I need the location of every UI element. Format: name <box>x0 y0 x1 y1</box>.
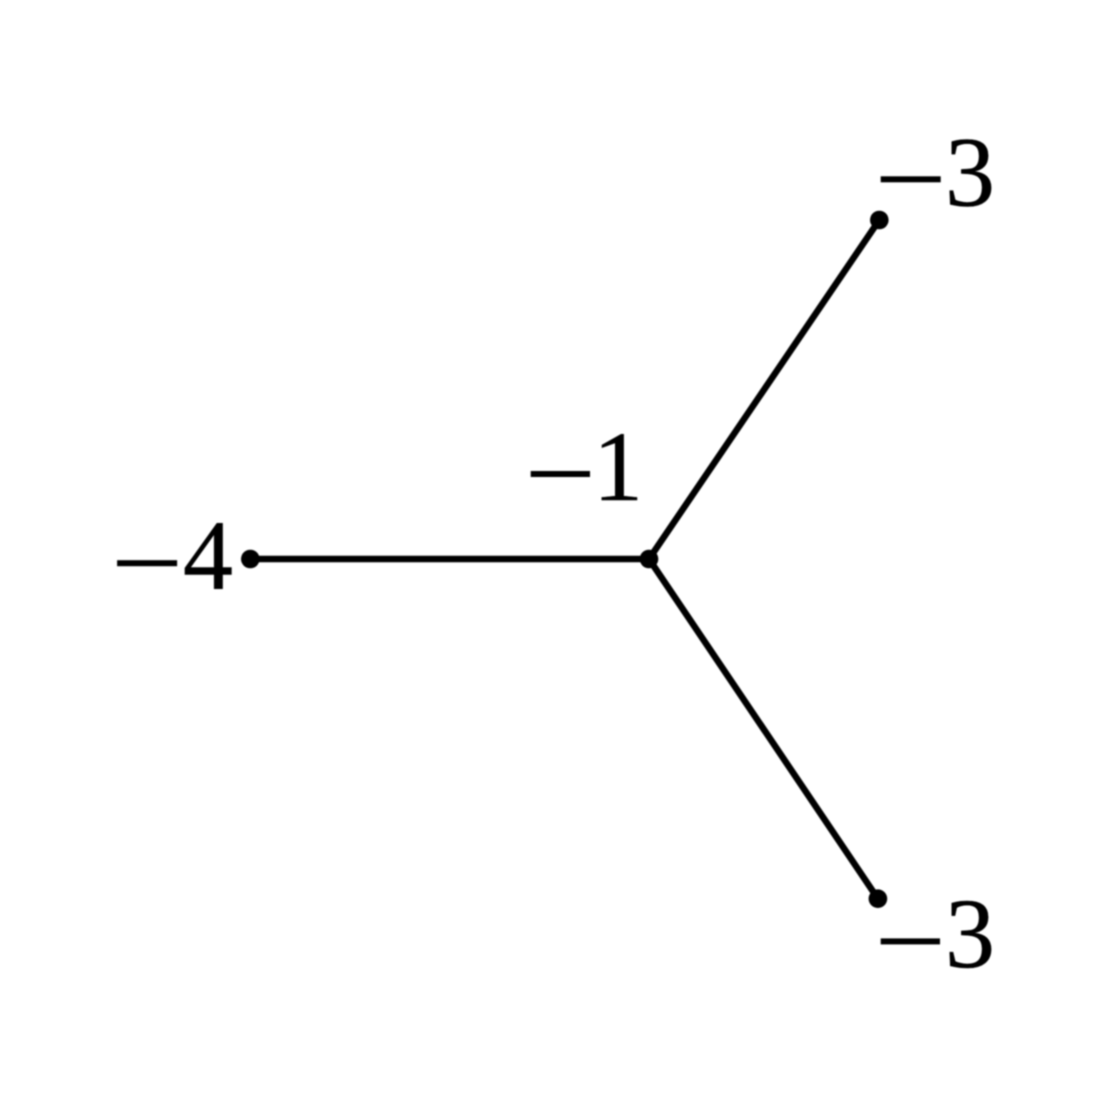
svg-text:3: 3 <box>945 878 995 989</box>
svg-text:1: 1 <box>593 411 643 522</box>
svg-text:4: 4 <box>183 500 233 611</box>
svg-text:3: 3 <box>945 117 995 228</box>
